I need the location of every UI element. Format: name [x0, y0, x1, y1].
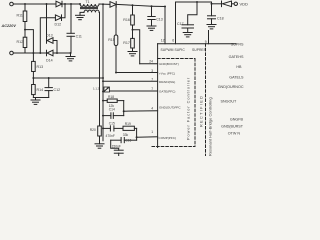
wire T1 to boost node [99, 3, 110, 5]
svg-text:C12: C12 [54, 88, 61, 92]
svg-text:GND(BOOST): GND(BOOST) [159, 62, 179, 66]
node multiplier to drain line [102, 77, 104, 79]
capacitor C17 [177, 1, 198, 33]
ground below R20 [95, 144, 104, 148]
svg-text:HB: HB [236, 65, 242, 69]
ground below C17 [183, 33, 192, 37]
PFC sub-box dashed [152, 59, 195, 147]
svg-text:24: 24 [149, 60, 153, 64]
pin 3 lead [116, 72, 158, 74]
svg-text:C16: C16 [125, 138, 131, 142]
svg-text:R11: R11 [17, 14, 23, 18]
wire top to C13 [133, 5, 152, 6]
svg-text:R19: R19 [125, 122, 131, 126]
resistor R11 [17, 4, 27, 30]
right box dashed left edge [205, 44, 207, 156]
diode D14 [46, 50, 71, 62]
svg-text:GND(OURNOC: GND(OURNOC [218, 85, 244, 89]
resistor R12 [17, 30, 27, 53]
svg-text:SUPRS: SUPRS [231, 42, 244, 46]
node boost drain [102, 3, 104, 5]
svg-text:C14: C14 [109, 107, 115, 111]
node pin12 [164, 6, 166, 8]
diode D12 [39, 4, 65, 54]
svg-text:150nF: 150nF [112, 144, 121, 148]
svg-text:SUPRES: SUPRES [192, 48, 207, 52]
capacitor C15 [103, 121, 123, 138]
capacitor C11 [67, 3, 82, 53]
capacitor C16 [111, 138, 137, 143]
svg-text:C17: C17 [177, 22, 184, 26]
wire divider tap to pin24 [133, 30, 140, 64]
svg-text:R12: R12 [17, 40, 24, 44]
wire line2 bottom [13, 52, 46, 54]
ground minus bus [66, 52, 75, 61]
diode D11 [56, 1, 79, 7]
node R13 bottom [32, 77, 34, 79]
capacitor C13 [148, 5, 163, 26]
ground secondary left [76, 12, 85, 19]
svg-text:R16: R16 [123, 18, 130, 22]
capacitor 150nF [111, 140, 124, 156]
node D13 tap [46, 3, 48, 5]
svg-text:7: 7 [151, 78, 153, 82]
node VDD feed [211, 3, 213, 5]
pin 4 lead [124, 110, 158, 112]
svg-text:1: 1 [151, 130, 153, 134]
transformer T1 secondary winding [84, 10, 99, 12]
wire line1 top [13, 3, 56, 5]
node A [24, 29, 26, 31]
transformer core [81, 6, 98, 8]
pin 7 lead [103, 80, 158, 82]
AC input terminal bottom [10, 51, 14, 55]
wire line1 to D13 cathode [46, 4, 48, 41]
svg-text:GATELS: GATELS [229, 75, 244, 79]
ground below C18 [207, 25, 216, 29]
resistor R20 [90, 126, 101, 144]
diode D15 [110, 2, 133, 8]
svg-text:T1: T1 [86, 0, 90, 4]
wire R18 right down [123, 101, 125, 116]
svg-text:OTW N: OTW N [228, 132, 241, 136]
capacitor C14 [102, 107, 124, 118]
resistor R18 [102, 95, 124, 108]
svg-text:Resonant Half-Bridge Controlli: Resonant Half-Bridge Controlling [209, 97, 213, 156]
pin 6 lead [176, 2, 212, 44]
resistor R19 [123, 122, 137, 137]
IC outer box [158, 44, 236, 148]
wire multiplier line [33, 77, 103, 79]
svg-text:DRAIN(NG): DRAIN(NG) [159, 80, 175, 84]
svg-text:12: 12 [161, 39, 165, 43]
wire R19 to pin1 [136, 128, 138, 140]
capacitor C12 [45, 77, 60, 98]
svg-text:C13: C13 [156, 17, 163, 21]
resistor R16 [123, 5, 134, 38]
svg-text:GND(BURST: GND(BURST [221, 125, 244, 129]
ground below R17 [128, 52, 137, 56]
node C15 line [102, 127, 104, 129]
svg-text:R15: R15 [108, 38, 115, 42]
terminal VDD [234, 2, 237, 5]
svg-text:33k: 33k [123, 133, 129, 137]
svg-text:SUPWM SUPIC: SUPWM SUPIC [161, 48, 186, 52]
transformer T1 primary winding [80, 4, 99, 6]
svg-text:R14: R14 [37, 88, 44, 92]
node R16/R17 [132, 29, 134, 31]
gate coupling box [93, 87, 110, 93]
wire secondary to ZCD line [98, 12, 100, 126]
svg-text:SNGOUT: SNGOUT [221, 99, 238, 103]
node on line2 [32, 52, 34, 54]
capacitor C18 [208, 4, 224, 25]
resistor R17 [123, 38, 134, 51]
svg-text:AC220V: AC220V [1, 24, 17, 28]
svg-text:R18: R18 [108, 95, 114, 99]
svg-text:D12: D12 [55, 23, 62, 27]
svg-text:Power Factor Controller: Power Factor Controller [187, 77, 191, 140]
svg-text:VDD: VDD [240, 2, 249, 7]
svg-text:GNGFB: GNGFB [230, 118, 244, 122]
AC input terminal top [10, 2, 14, 6]
pin 9 lead [208, 31, 210, 44]
wire C13 to pin12 [152, 5, 166, 7]
node D11/D12 cathodes [64, 3, 66, 5]
resistor R14 [32, 78, 43, 98]
svg-text:D14: D14 [46, 59, 53, 63]
wire R14/C12 bottom [33, 97, 48, 99]
svg-text:3: 3 [151, 69, 153, 73]
svg-text:R13: R13 [37, 65, 44, 69]
svg-text:+Vcc (PFC): +Vcc (PFC) [159, 71, 175, 75]
wire drain line [102, 4, 104, 141]
svg-text:D13: D13 [46, 33, 53, 37]
pin 1 lead [137, 136, 158, 138]
svg-text:COMP(PFC): COMP(PFC) [159, 136, 177, 140]
svg-text:6: 6 [172, 39, 174, 43]
pin 2 lead [110, 90, 158, 92]
svg-text:GATE(PFC): GATE(PFC) [159, 90, 175, 94]
resistor R13 [32, 61, 43, 78]
svg-text:1:1.2: 1:1.2 [93, 87, 100, 91]
wire node A to sense line [25, 30, 33, 53]
svg-text:R17: R17 [123, 41, 130, 45]
pin 12 lead [164, 7, 166, 44]
svg-text:4: 4 [151, 107, 153, 111]
svg-text:GND(OUT)PFC: GND(OUT)PFC [159, 106, 181, 110]
ground below R14 [31, 98, 40, 105]
node pin1 branch [136, 136, 138, 138]
svg-text:470nF: 470nF [106, 134, 115, 138]
svg-text:C18: C18 [217, 16, 224, 20]
pin 24 lead [140, 63, 158, 65]
svg-text:RECTIFIED: RECTIFIED [200, 95, 204, 127]
resistor R15 [108, 5, 118, 73]
ground below C13 [147, 26, 156, 30]
svg-text:GATEHS: GATEHS [229, 55, 244, 59]
svg-text:R20: R20 [90, 128, 96, 132]
diode D13 [46, 33, 57, 53]
node R16 top [132, 4, 134, 6]
diode D16 VDD [212, 1, 235, 7]
wire sense line down to R13 [32, 53, 34, 61]
svg-text:C11: C11 [76, 35, 82, 39]
svg-text:C15: C15 [109, 121, 115, 125]
node R11 tap [24, 3, 26, 5]
svg-text:7: 7 [151, 87, 153, 91]
